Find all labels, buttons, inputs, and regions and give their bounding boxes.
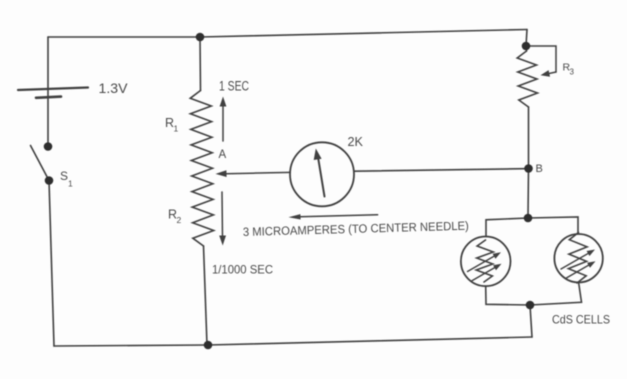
svg-text:CdS CELLS: CdS CELLS xyxy=(552,313,610,327)
svg-text:1.3V: 1.3V xyxy=(99,81,128,96)
svg-text:1: 1 xyxy=(174,124,179,134)
svg-text:1/1000 SEC: 1/1000 SEC xyxy=(212,263,273,277)
svg-text:1 SEC: 1 SEC xyxy=(219,79,249,94)
svg-text:A: A xyxy=(219,149,227,161)
svg-text:1: 1 xyxy=(68,179,73,189)
svg-text:S: S xyxy=(60,169,68,183)
svg-text:3: 3 xyxy=(570,68,575,77)
svg-text:2K: 2K xyxy=(348,134,364,149)
svg-text:3 MICROAMPERES (TO CENTER NEED: 3 MICROAMPERES (TO CENTER NEEDLE) xyxy=(243,219,469,239)
svg-text:2: 2 xyxy=(177,215,182,225)
svg-text:B: B xyxy=(536,163,543,175)
